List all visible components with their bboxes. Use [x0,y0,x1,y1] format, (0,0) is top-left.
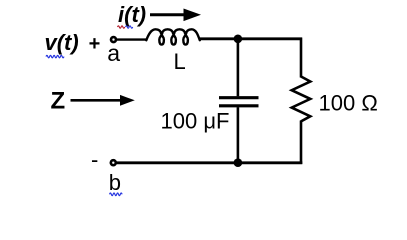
svg-text:v(t): v(t) [45,30,79,55]
capacitor branch upper wire [237,39,240,97]
right branch lower wire [300,121,303,165]
wire node a to inductor [117,38,148,40]
junction dot top [234,35,243,44]
svg-text:-: - [91,147,98,172]
svg-text:+: + [89,33,101,55]
capacitor C top plate [219,96,259,99]
svg-text:Z: Z [51,88,66,115]
svg-text:L: L [174,49,186,74]
bottom wire [117,161,303,164]
capacitor branch lower wire [237,107,240,163]
right branch upper wire [300,38,303,78]
terminal a (open circle) [111,37,116,42]
capacitor C bottom plate [219,104,259,107]
inductor L [146,29,200,44]
wire inductor to right corner [200,37,303,40]
svg-text:b: b [109,170,121,195]
spellcheck squiggle under i(t) red [118,26,125,28]
impedance arrow [71,95,135,106]
grammar squiggle under b blue [110,193,123,196]
svg-text:100 μF: 100 μF [161,109,230,134]
junction dot bottom [234,158,243,167]
svg-text:100 Ω: 100 Ω [319,90,378,115]
grammar squiggle under v(t) blue [46,55,64,58]
current arrow i(t) [150,9,201,22]
spellcheck squiggle under i(t) blue [126,26,133,28]
svg-text:i(t): i(t) [118,2,146,27]
svg-text:a: a [107,40,120,66]
terminal b [111,160,116,165]
resistor R 100 ohm zigzag [292,77,311,122]
